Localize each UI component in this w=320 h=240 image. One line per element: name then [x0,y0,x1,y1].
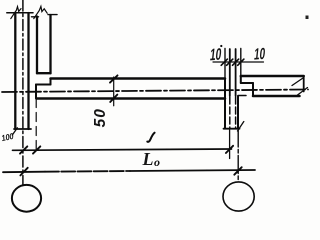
L0 dimension line right part [130,170,255,171]
right slab break tick lower [298,88,308,96]
svg-text:10: 10 [209,44,223,64]
tick at l right end [226,146,233,153]
lower wall bottom cap [224,128,240,130]
left wall left edge [14,13,16,129]
left slab top edge [51,77,226,80]
left axis circle [12,185,41,212]
right axis extension (dash-dot) [237,129,239,181]
left wall right edge [27,13,29,129]
left wall break zigzag [11,7,21,19]
upper wall top cut line left [32,16,39,18]
50 dim tick bottom [110,95,117,102]
left wall bottom cap [14,128,31,130]
left slab top notch edge [36,84,51,86]
joint wall left face hidden part [229,97,231,128]
joint wall right face [235,49,237,96]
left slab face extension line [35,99,37,151]
right slab notch bottom [241,82,253,84]
joint tick 3 [233,59,239,65]
joint tick 4 [238,59,244,65]
left wall bottom break tick [12,128,17,135]
left slab right face [224,79,226,99]
left slab end face [35,85,37,99]
L0 dimension line middle part [45,170,130,173]
joint dimension line (10/10) [213,61,264,63]
left wall axis (dash-dot vertical) [22,0,24,186]
right slab end vertical [303,76,305,92]
wall seat line [238,95,246,97]
corner artifact [306,16,309,20]
label l [147,133,154,142]
upper wall (U) bottom cap [37,72,51,74]
lower wall left edge [224,99,226,129]
lower wall right edge [237,96,239,129]
tick at L0 right [234,167,241,175]
upper wall top cut line right [48,14,57,16]
slab centerline (dash-dot) [2,90,308,93]
right slab bottom edge [253,95,300,98]
svg-text:50: 50 [92,108,109,127]
left wall top cut line [7,12,33,14]
joint tick 2 [227,59,233,65]
joint tick 1 [221,59,227,65]
right axis circle [223,182,254,211]
right slab left face extension [240,49,242,77]
right slab break tick upper [292,78,303,86]
right slab left face [240,76,242,83]
upper wall (U) left edge [36,17,38,74]
lower wall break tick [238,122,244,132]
50 dim tick top [110,75,118,82]
upper wall break zigzag [34,6,47,18]
upper wall (U) right edge [49,15,51,73]
L0 dimension line left part [3,171,45,174]
svg-text:10: 10 [253,44,266,63]
apostrophe after left 10 [220,45,222,47]
tick at L0 left [20,168,27,176]
l dimension line [13,149,232,150]
left slab notch step [50,79,52,85]
joint wall left face [229,49,231,96]
right slab notch step [252,83,254,96]
joint wall right face hidden part [235,97,237,128]
joint wall face extension to l line [229,130,231,159]
right slab top edge [241,75,304,78]
50 dimension line [113,77,115,106]
left slab right face extension [224,49,226,79]
tick at slab face (100 right / l left) [33,146,40,153]
tick at wall axis (100 left) [20,146,27,153]
left slab bottom edge [37,97,226,100]
